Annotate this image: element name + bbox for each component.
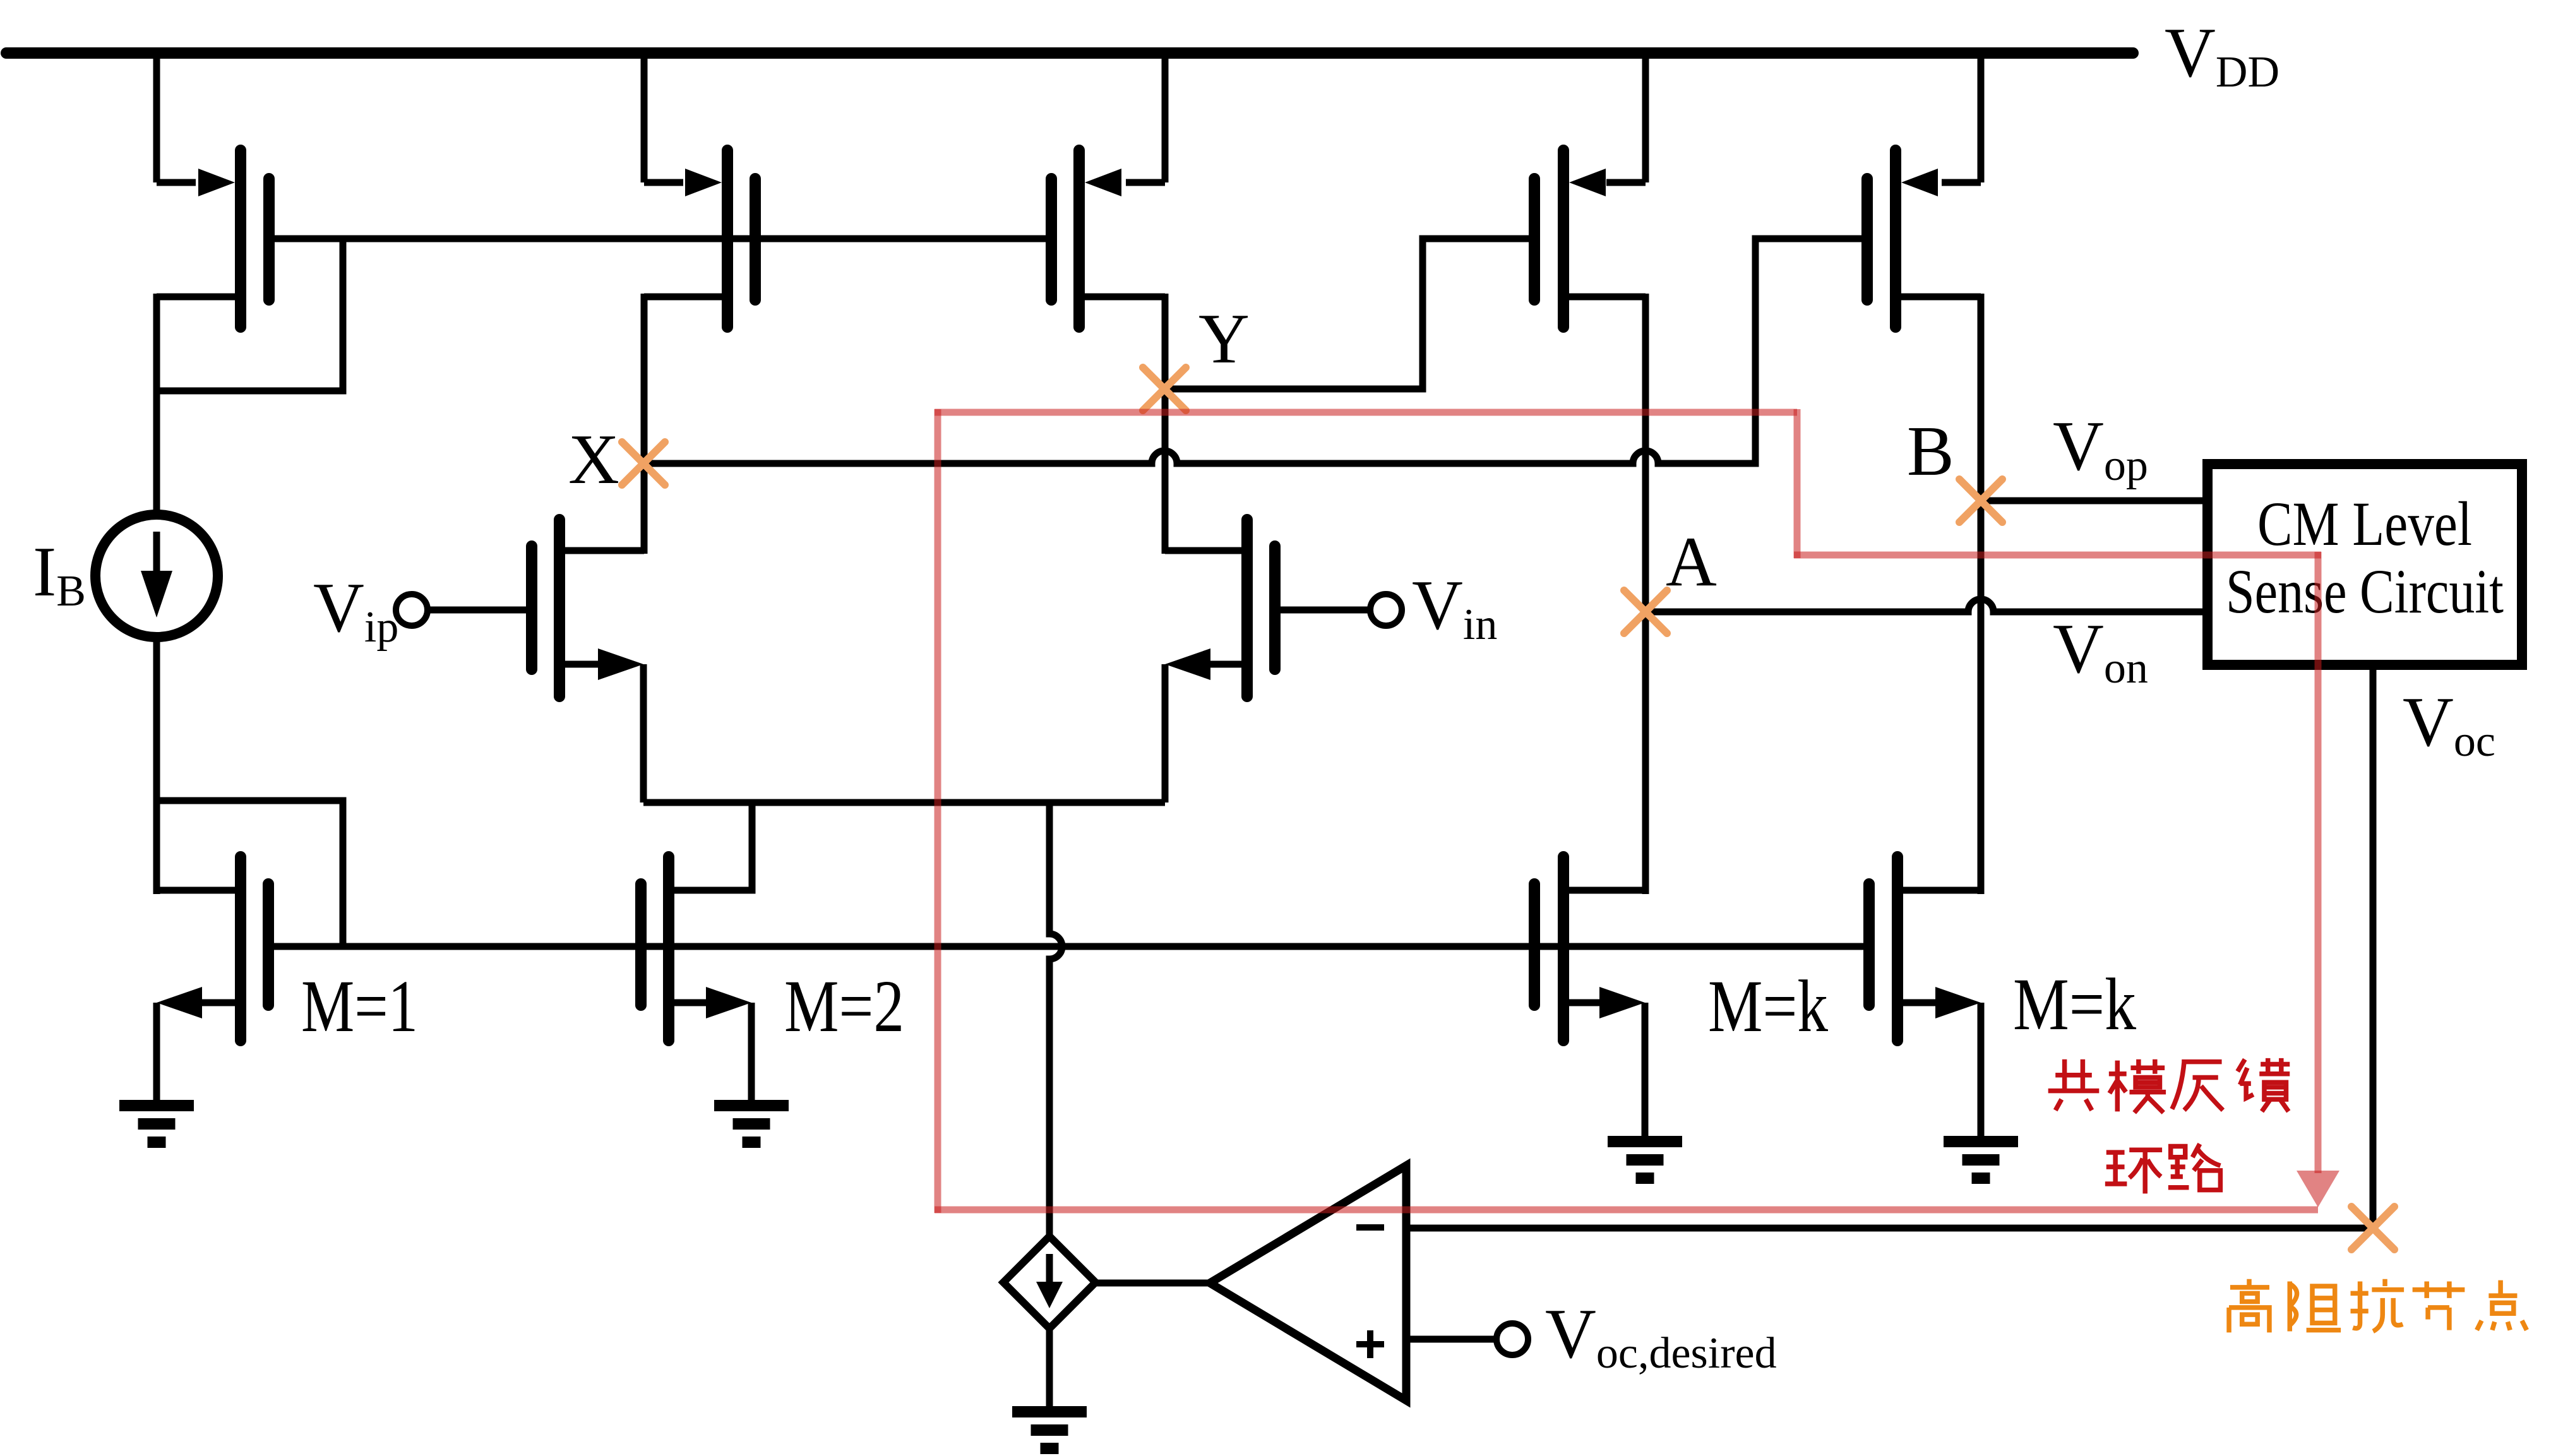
label CMFB loop text line2 xyxy=(2105,1150,2162,1193)
terminal Vip xyxy=(396,594,427,626)
transistor M4 NMOS M=2 xyxy=(663,857,674,1041)
power rail VDD xyxy=(6,47,2133,59)
transistor M6 PMOS xyxy=(722,150,733,327)
transistor M5 PMOS diode-connected xyxy=(235,150,246,327)
CMFB loop path top segment xyxy=(935,409,1797,416)
wire M5 drain to IB xyxy=(157,294,235,301)
block CM Level Sense Circuit xyxy=(2208,464,2522,665)
CMFB loop path middle segment xyxy=(1794,552,2321,559)
transistor M9 PMOS xyxy=(1890,150,1901,327)
wire M1 source to ground xyxy=(196,1000,235,1006)
wire Vip to M2 gate xyxy=(427,607,526,614)
CMFB loop path left segment xyxy=(935,409,941,1213)
wire tail node xyxy=(643,799,1165,806)
wire Voc from sense circuit to error amp xyxy=(1406,665,2373,1228)
svg-text:Voc: Voc xyxy=(2403,683,2495,766)
wire M7 source to VDD xyxy=(1162,53,1169,182)
wire M2 drain to node X xyxy=(565,547,644,554)
CMFB loop path right upper segment xyxy=(1794,409,1801,558)
svg-text:M=k: M=k xyxy=(1708,965,1828,1047)
wire PMOS mirror gate line xyxy=(275,236,1046,242)
transistor M8 PMOS xyxy=(1558,150,1569,327)
ground under controlled source xyxy=(1012,1406,1087,1417)
controlled current source G1 xyxy=(1003,1236,1096,1328)
wire M3 drain to node Y xyxy=(1165,547,1241,554)
svg-text:Voc,desired: Voc,desired xyxy=(1545,1295,1777,1378)
svg-text:IB: IB xyxy=(33,533,86,616)
transistor M10 NMOS M=k xyxy=(1558,857,1569,1041)
ground under M1 xyxy=(119,1100,194,1111)
wire M8 source to VDD xyxy=(1642,53,1649,182)
wire M9 source to VDD xyxy=(1978,53,1985,182)
terminal Voc,desired xyxy=(1497,1323,1528,1355)
node B mark xyxy=(1959,479,2002,522)
node Y mark xyxy=(1143,367,1186,410)
wire M2 source to tail xyxy=(565,661,603,668)
terminal Vin xyxy=(1370,594,1402,626)
wire M1 diode connection xyxy=(157,801,343,946)
svg-text:CM Level: CM Level xyxy=(2257,489,2472,559)
op-amp plus sign xyxy=(1356,1341,1384,1347)
node X wire xyxy=(643,239,1861,463)
wire M10 drain to node A xyxy=(1569,887,1646,894)
wire M1 drain xyxy=(157,887,235,894)
wire M6 source to VDD xyxy=(641,53,648,182)
ground under M4 xyxy=(714,1100,789,1111)
svg-text:Vop: Vop xyxy=(2053,407,2148,490)
svg-text:A: A xyxy=(1666,523,1717,601)
node A wire to sense circuit xyxy=(1646,599,2202,612)
transistor M3 NMOS diff pair right xyxy=(1241,520,1253,696)
wire M4 source to ground xyxy=(674,1000,708,1006)
svg-text:Vin: Vin xyxy=(1412,566,1497,649)
svg-text:Vip: Vip xyxy=(313,569,398,652)
wire M5 gate diode connection xyxy=(157,239,343,391)
wire op-amp output to controlled source xyxy=(1096,1280,1210,1287)
wire M3 gate to Vin xyxy=(1281,607,1370,614)
CMFB loop arrowhead xyxy=(2297,1171,2339,1207)
wire M11 drain to node B xyxy=(1903,887,1981,894)
wire M6 drain to node X xyxy=(644,294,722,301)
transistor M7 PMOS xyxy=(1073,150,1085,327)
svg-text:B: B xyxy=(1907,412,1954,491)
label CMFB loop text line1 xyxy=(2048,1059,2100,1111)
node B wire to sense circuit xyxy=(1981,498,2202,504)
svg-text:M=k: M=k xyxy=(2013,963,2136,1046)
wire M9 drain to node B xyxy=(1901,294,1981,301)
node X mark xyxy=(622,442,665,485)
wire M10 source to ground xyxy=(1569,1000,1603,1006)
wire M8 drain to node A xyxy=(1569,294,1646,301)
ground under M11 xyxy=(1944,1136,2018,1147)
svg-text:Y: Y xyxy=(1198,300,1250,378)
op-amp minus sign xyxy=(1356,1224,1384,1231)
node Y wire xyxy=(1165,239,1529,389)
svg-text:Von: Von xyxy=(2053,610,2148,693)
svg-text:VDD: VDD xyxy=(2165,14,2279,97)
op-amp U1 error amplifier xyxy=(1210,1166,1406,1400)
wire controlled source to ground xyxy=(1046,1328,1053,1406)
current source IB xyxy=(95,515,218,637)
wire M5 source to VDD xyxy=(153,53,160,182)
transistor M2 NMOS diff pair left xyxy=(554,520,565,696)
svg-text:M=2: M=2 xyxy=(784,965,904,1047)
high impedance node mark xyxy=(2351,1207,2394,1250)
svg-text:M=1: M=1 xyxy=(301,965,418,1047)
wire IB to M1 xyxy=(153,637,160,894)
svg-text:X: X xyxy=(568,421,619,499)
wire M11 source to ground xyxy=(1903,1000,1937,1006)
transistor M11 NMOS M=k xyxy=(1892,857,1903,1041)
wire tail to controlled source xyxy=(1049,803,1062,1237)
wire op-amp plus input xyxy=(1406,1336,1497,1343)
svg-text:Sense Circuit: Sense Circuit xyxy=(2226,556,2504,626)
node A mark xyxy=(1624,590,1667,633)
transistor M1 NMOS M=1 xyxy=(235,857,246,1041)
label high impedance node text xyxy=(2229,1279,2269,1333)
wire M3 source to tail xyxy=(1207,661,1241,668)
CMFB loop path right segment xyxy=(2315,552,2322,1173)
ground under M10 xyxy=(1608,1136,1682,1147)
wire M7 drain to node Y xyxy=(1085,294,1165,301)
wire NMOS mirror gate line xyxy=(274,943,1863,950)
CMFB loop bottom segment xyxy=(935,1207,2318,1214)
wire M4 drain to tail xyxy=(674,803,752,890)
